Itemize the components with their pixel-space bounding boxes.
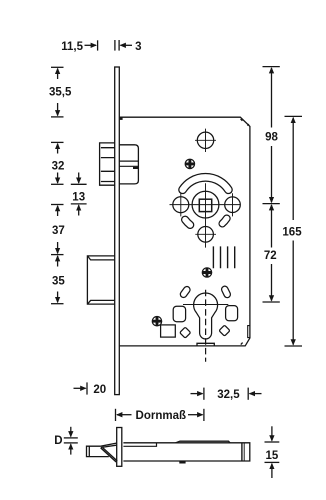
svg-text:D: D xyxy=(54,435,62,447)
svg-text:3: 3 xyxy=(135,41,141,53)
svg-text:11,5: 11,5 xyxy=(61,41,83,53)
svg-text:72: 72 xyxy=(264,250,277,262)
svg-text:98: 98 xyxy=(265,132,278,144)
svg-text:32,5: 32,5 xyxy=(217,389,240,401)
svg-text:35,5: 35,5 xyxy=(49,87,72,99)
svg-text:35: 35 xyxy=(52,276,65,288)
svg-text:37: 37 xyxy=(52,225,65,237)
svg-text:165: 165 xyxy=(282,226,302,238)
svg-text:32: 32 xyxy=(52,161,65,173)
svg-text:20: 20 xyxy=(93,384,106,396)
svg-text:15: 15 xyxy=(266,450,279,462)
svg-text:13: 13 xyxy=(72,192,85,204)
svg-text:Dornmaß: Dornmaß xyxy=(136,410,186,422)
